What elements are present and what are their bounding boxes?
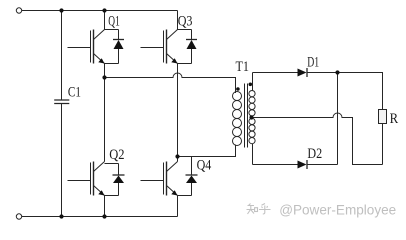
svg-text:R: R bbox=[390, 111, 399, 127]
wire R bottom bbox=[382, 124, 384, 165]
secondary bottom lead bbox=[252, 144, 254, 165]
junction dot bottom rail C1 bbox=[59, 214, 63, 218]
wire left leg midpoint (Q1 emitter to Q2 collector) bbox=[104, 64, 106, 162]
diode D2 cathode bar bbox=[306, 160, 308, 169]
svg-text:T1: T1 bbox=[236, 59, 250, 75]
wire right-leg node to primary bottom bbox=[178, 145, 236, 157]
resistor R body bbox=[379, 110, 387, 124]
wire right leg (Q3 emitter to Q4 collector) bbox=[177, 64, 179, 162]
svg-text:Q4: Q4 bbox=[197, 158, 212, 174]
wire Q3 collector drop from top rail bbox=[177, 11, 179, 30]
wire left-leg node to primary top with hop over right leg bbox=[105, 73, 236, 93]
capacitor C1 top lead wire bbox=[61, 11, 63, 101]
capacitor C1 plates bbox=[54, 100, 69, 104]
wire Q2 emitter to bottom rail bbox=[104, 196, 106, 217]
junction dot top rail C1 bbox=[59, 8, 63, 12]
wire Q1 diode top bbox=[105, 29, 119, 31]
transformer core lines bbox=[245, 84, 248, 148]
input terminal top bbox=[16, 8, 21, 13]
junction dot D1 output node bbox=[335, 70, 339, 74]
diode D1 cathode bar bbox=[306, 68, 308, 77]
svg-text:D1: D1 bbox=[307, 54, 319, 70]
top rail wire bbox=[22, 10, 178, 12]
wire Q2 diode top bbox=[105, 163, 119, 165]
IGBT Q3 bbox=[141, 30, 198, 64]
transformer secondary lower winding (4 loops) bbox=[249, 118, 255, 143]
center tap wire with hop over riser bbox=[252, 113, 383, 165]
wire D2 to riser bbox=[307, 164, 338, 166]
IGBT Q2 bbox=[68, 162, 125, 196]
wire secondary bottom to D2 bbox=[253, 164, 298, 166]
svg-text:@Power-Employee: @Power-Employee bbox=[279, 202, 396, 218]
bottom terminal bbox=[16, 214, 21, 219]
IGBT Q4 bbox=[141, 162, 198, 196]
wire D1 to right corner down to R bbox=[308, 73, 383, 110]
transformer T1 primary winding (6 loops) bbox=[233, 92, 242, 146]
svg-text:Q1: Q1 bbox=[108, 14, 120, 30]
svg-text:Q2: Q2 bbox=[109, 147, 124, 163]
junction dot bottom rail Q2 bbox=[102, 214, 106, 218]
secondary top lead bbox=[252, 73, 254, 92]
diode D2 bbox=[298, 161, 307, 169]
diode D1 bbox=[298, 69, 307, 77]
junction dot right leg primary tap bbox=[175, 154, 179, 158]
vertical riser D2 output to D1 node bbox=[337, 73, 339, 165]
bottom rail wire bbox=[22, 216, 178, 218]
watermark hanzi ZHI bbox=[247, 204, 258, 215]
wire Q4 emitter to bottom rail bbox=[177, 196, 179, 217]
primary polarity dot bbox=[236, 87, 240, 91]
transformer secondary upper winding (4 loops) bbox=[249, 91, 255, 116]
watermark hanzi HU bbox=[259, 204, 271, 215]
svg-text:D2: D2 bbox=[307, 146, 322, 162]
capacitor C1 bottom lead wire bbox=[61, 104, 63, 217]
wire Q4 diode top stub bbox=[191, 157, 193, 164]
junction dot top rail Q1 bbox=[102, 8, 106, 12]
wire Q3 diode top bbox=[178, 29, 192, 31]
svg-text:Q3: Q3 bbox=[178, 14, 193, 30]
svg-text:C1: C1 bbox=[68, 84, 81, 100]
IGBT Q1 bbox=[68, 30, 125, 64]
secondary polarity dot bbox=[249, 83, 253, 87]
wire Q1 collector to top rail bbox=[104, 11, 106, 30]
junction dot secondary center tap bbox=[249, 115, 253, 119]
junction dot left leg midpoint bbox=[102, 75, 106, 79]
wire secondary top to D1 bbox=[253, 72, 298, 74]
